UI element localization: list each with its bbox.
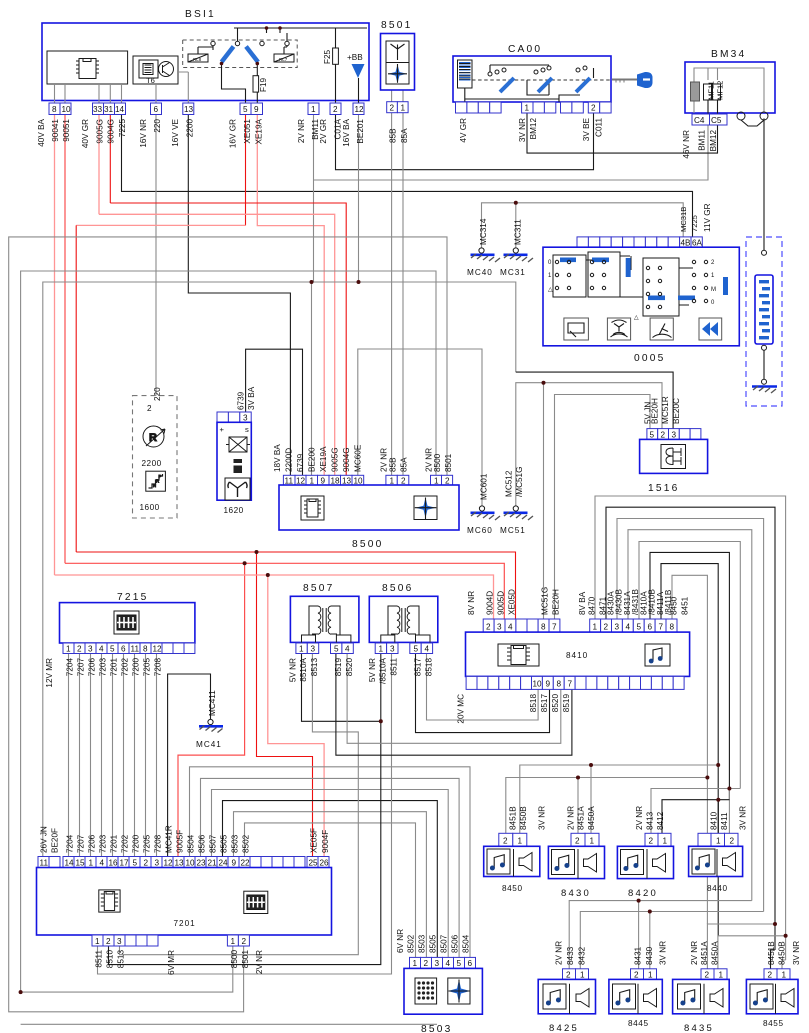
svg-text:RL7: RL7 [279, 57, 288, 62]
star icon [448, 978, 470, 1004]
svg-text:220: 220 [153, 387, 162, 401]
svg-text:7202: 7202 [121, 658, 130, 677]
svg-text:5: 5 [334, 645, 339, 654]
svg-text:40V BA: 40V BA [37, 118, 46, 146]
svg-text:8504: 8504 [187, 834, 196, 853]
wire BM11 from BSI1 pin 1 [313, 115, 315, 282]
svg-text:2: 2 [503, 837, 508, 846]
svg-text:2V NR: 2V NR [567, 806, 576, 830]
wire 9004D horizontal [55, 575, 494, 619]
wire BE20 main horizontal [43, 282, 516, 857]
svg-text:12: 12 [355, 105, 365, 114]
amplifier 8410 [457, 587, 690, 724]
svg-text:9004G: 9004G [342, 447, 351, 472]
lamp icon [226, 437, 250, 452]
svg-text:2200D: 2200D [285, 448, 294, 472]
svg-text:MC40: MC40 [467, 268, 493, 277]
svg-text:2V NR: 2V NR [690, 941, 699, 965]
wire 8520 8507 pin 4 to 8410 pin 8 [347, 654, 561, 744]
wire 8413 8420 pin 2 line [651, 789, 740, 834]
CA00 pin row [456, 102, 467, 113]
svg-text:7206: 7206 [88, 834, 97, 853]
svg-text:26: 26 [320, 859, 330, 868]
svg-text:8511: 8511 [95, 950, 104, 968]
svg-text:1: 1 [716, 837, 721, 846]
svg-text:MC51G: MC51G [541, 587, 550, 615]
wire 9005G horizontal into 8500 pin 18 [99, 214, 335, 475]
svg-text:5: 5 [414, 645, 419, 654]
wire 8505 7201 to 8503 pin 3 [223, 801, 438, 958]
svg-text:9005D: 9005D [497, 591, 506, 615]
wire 8451A branch 8430 pin 2 [577, 778, 579, 834]
svg-text:12V MR: 12V MR [45, 658, 54, 688]
speaker 8425 [538, 941, 595, 1033]
svg-text:1: 1 [231, 937, 236, 946]
svg-text:23: 23 [197, 859, 207, 868]
svg-text:8451A: 8451A [700, 941, 709, 965]
wire C01A BSI1 pin 2 to CA00 pin 2 [336, 113, 594, 170]
svg-text:3V BE: 3V BE [582, 117, 591, 141]
BSI1 inner module box [47, 51, 128, 84]
svg-text:XE19A: XE19A [319, 446, 328, 472]
svg-text:2200: 2200 [186, 119, 195, 138]
remote control 7215 [45, 592, 195, 688]
svg-text:8411: 8411 [720, 812, 729, 830]
svg-text:RL8: RL8 [193, 57, 202, 62]
svg-text:16V NR: 16V NR [139, 119, 148, 148]
horn icon [225, 478, 250, 500]
svg-text:33: 33 [93, 105, 103, 114]
steering column switch 0005 [543, 203, 739, 364]
bridge connector [737, 112, 745, 120]
svg-text:6: 6 [468, 959, 473, 968]
svg-text:2: 2 [242, 937, 247, 946]
svg-text:7203: 7203 [99, 834, 108, 853]
svg-text:9004F: 9004F [321, 830, 330, 853]
svg-text:8507: 8507 [303, 583, 334, 594]
svg-text:8455: 8455 [763, 1019, 784, 1028]
svg-text:7203: 7203 [99, 658, 108, 677]
svg-text:△: △ [548, 287, 553, 293]
svg-text:5: 5 [110, 645, 115, 654]
wire 8500net left loop [21, 271, 436, 992]
bottom pins [92, 935, 249, 946]
battery icon [234, 459, 243, 473]
svg-text:24: 24 [219, 859, 229, 868]
svg-text:2: 2 [445, 477, 450, 486]
svg-text:8433: 8433 [566, 946, 575, 965]
svg-text:7201: 7201 [174, 919, 196, 928]
svg-text:2: 2 [106, 937, 111, 946]
svg-text:9005G: 9005G [96, 119, 105, 144]
wire BE20C to 1516 pin 3 [516, 372, 673, 429]
svg-text:MC60E: MC60E [354, 444, 363, 472]
music note icon [645, 644, 670, 666]
ignition switch CA00 [453, 44, 653, 143]
svg-text:1: 1 [663, 837, 668, 846]
wire 9004G from BSI1 pin 31 [109, 115, 111, 203]
svg-text:8511: 8511 [390, 658, 399, 676]
svg-text:10: 10 [186, 859, 196, 868]
wire 8412 8420 pin 1 line [662, 800, 729, 834]
wire 8502 7201 to 8503 pin 1 [245, 823, 416, 958]
front speaker unit 8506 [368, 583, 438, 684]
svg-text:2V NR: 2V NR [380, 448, 389, 472]
svg-text:3: 3 [243, 414, 248, 423]
IC chip icon [301, 496, 324, 520]
0005 icon washer [607, 318, 630, 340]
svg-text:XE05D: XE05D [508, 589, 517, 615]
wire XE051 from BSI1 pin 5 [245, 115, 247, 225]
svg-text:BSI1: BSI1 [185, 9, 216, 20]
svg-text:90041: 90041 [51, 119, 60, 142]
svg-text:8450: 8450 [670, 596, 679, 615]
wire 8451B speaker line [506, 778, 708, 834]
svg-text:6: 6 [121, 645, 126, 654]
wire 8432 8425 pin 1 line [580, 912, 763, 969]
svg-text:5: 5 [457, 959, 462, 968]
wire 8431 branch 8445 pin 2 [638, 901, 640, 969]
svg-text:6A: 6A [692, 239, 703, 248]
svg-text:2: 2 [604, 623, 609, 632]
svg-text:16V BA: 16V BA [342, 118, 351, 146]
0005 icon wiper [650, 318, 673, 340]
fuse MF11 [691, 82, 700, 101]
svg-text:15: 15 [76, 859, 86, 868]
BSI1 internal top wires [198, 28, 367, 54]
svg-text:4: 4 [425, 645, 430, 654]
svg-text:8420: 8420 [628, 888, 658, 899]
svg-text:MC512: MC512 [505, 470, 514, 497]
svg-text:2: 2 [333, 105, 338, 114]
wire 8411 branch 8440 pin 2 [728, 789, 730, 834]
svg-text:8507: 8507 [209, 834, 218, 853]
wire 8501net left loop [9, 237, 447, 1012]
ground MC41 [196, 690, 223, 749]
wire MC51R 1516 to ground [516, 383, 662, 506]
dashed option box 2200 1600 [133, 387, 178, 518]
svg-text:BE200: BE200 [308, 447, 317, 472]
svg-text:BE20H: BE20H [552, 589, 561, 615]
wire 8511 8506 pin 3 to 7201 [98, 654, 392, 975]
star icon [388, 64, 407, 83]
svg-text:3V NR: 3V NR [518, 118, 527, 142]
svg-text:10: 10 [354, 477, 364, 486]
svg-text:8520: 8520 [345, 658, 354, 677]
wire BE20H 1516 to 8410 pin 7 [555, 395, 651, 620]
junction unit BM34 [682, 49, 775, 159]
svg-text:1600: 1600 [140, 503, 160, 512]
connector icon [114, 611, 139, 634]
svg-text:8513: 8513 [117, 950, 126, 969]
wire BM34 bridge to ladder [763, 118, 765, 250]
svg-text:5: 5 [650, 431, 655, 440]
key icon [612, 79, 637, 81]
svg-text:6: 6 [648, 623, 653, 632]
svg-text:2: 2 [575, 837, 580, 846]
svg-text:85B: 85B [389, 128, 398, 143]
svg-text:7201: 7201 [110, 834, 119, 853]
svg-text:8510: 8510 [106, 950, 115, 969]
svg-text:5V NR: 5V NR [289, 658, 298, 682]
svg-text:4: 4 [100, 859, 105, 868]
svg-text:8V NR: 8V NR [467, 591, 476, 615]
svg-text:0005: 0005 [634, 353, 665, 364]
svg-text:14: 14 [115, 105, 125, 114]
wire XE05F branch [257, 552, 313, 857]
svg-text:MF12: MF12 [716, 81, 725, 100]
svg-text:MC601: MC601 [480, 473, 489, 500]
svg-text:4: 4 [345, 645, 350, 654]
svg-text:2: 2 [730, 837, 735, 846]
switch output wires and fuse F19 [222, 64, 258, 104]
svg-text:12: 12 [296, 477, 306, 486]
svg-text:8431: 8431 [634, 946, 643, 965]
svg-text:8518: 8518 [529, 694, 538, 713]
svg-text:11: 11 [285, 477, 294, 486]
svg-text:MC31B: MC31B [679, 207, 688, 232]
svg-text:8451B: 8451B [767, 941, 776, 965]
svg-text:1: 1 [525, 104, 530, 113]
svg-text:8: 8 [52, 105, 57, 114]
wire 90051 from BSI1 pin 10 [64, 115, 66, 563]
svg-text:4: 4 [446, 959, 451, 968]
svg-text:8510A: 8510A [299, 657, 308, 681]
svg-text:7202: 7202 [121, 834, 130, 853]
svg-text:3: 3 [390, 645, 395, 654]
svg-text:8440: 8440 [707, 884, 728, 893]
svg-text:8503: 8503 [421, 1024, 452, 1033]
svg-text:1: 1 [593, 623, 598, 632]
wire 8513 8507 pin 3 to 7201 [120, 654, 359, 955]
ground MC60 [467, 473, 500, 535]
svg-text:31: 31 [104, 105, 114, 114]
svg-text:8V BA: 8V BA [578, 591, 587, 615]
svg-text:7206: 7206 [88, 658, 97, 677]
svg-text:13: 13 [342, 477, 352, 486]
svg-text:8517: 8517 [414, 658, 423, 677]
svg-text:+BB: +BB [347, 53, 363, 62]
svg-text:9: 9 [546, 680, 551, 689]
svg-text:s: s [245, 425, 249, 434]
svg-text:C5: C5 [711, 116, 722, 125]
svg-text:MC314: MC314 [479, 218, 488, 245]
relay dashed box [183, 40, 298, 68]
svg-text:8445: 8445 [628, 1019, 649, 1028]
svg-text:7205: 7205 [143, 834, 152, 853]
svg-text:12: 12 [164, 859, 174, 868]
svg-text:8519: 8519 [562, 694, 571, 713]
svg-text:9005F: 9005F [176, 830, 185, 853]
svg-text:8506: 8506 [382, 583, 413, 594]
svg-text:2V GR: 2V GR [319, 119, 328, 144]
svg-text:16V VE: 16V VE [171, 118, 180, 146]
svg-text:2: 2 [661, 431, 666, 440]
speaker 8445 [609, 941, 668, 1028]
svg-text:8450A: 8450A [587, 806, 596, 830]
contacts [465, 65, 594, 102]
wire 6739 1620 to 8500 pin 12 [246, 349, 303, 475]
IC chip icon [498, 644, 539, 666]
svg-text:2: 2 [424, 959, 429, 968]
svg-text:8450B: 8450B [519, 806, 528, 830]
svg-text:10: 10 [62, 105, 72, 114]
0005 icon rewind [699, 318, 722, 340]
svg-text:XE05F: XE05F [310, 828, 319, 853]
svg-text:40V GR: 40V GR [81, 119, 90, 148]
svg-text:7225: 7225 [118, 119, 127, 138]
relay switch contacts [222, 47, 234, 63]
svg-text:2V NR: 2V NR [555, 941, 564, 965]
fuse F25 [333, 48, 339, 64]
svg-text:8501: 8501 [381, 20, 412, 31]
wire MC51G branch to 8410 pin 8 [543, 383, 545, 619]
svg-text:△: △ [634, 315, 639, 321]
svg-text:21: 21 [208, 859, 218, 868]
svg-text:R: R [156, 479, 159, 484]
svg-text:7201: 7201 [110, 658, 119, 677]
IC chip icon [76, 59, 99, 79]
wire 8450A 8435 pin 1 line [718, 936, 786, 969]
right bundle riser B1 [595, 496, 786, 960]
wire 8510 8506 pin 1 to 7201 [109, 654, 381, 965]
transistor module T6 [133, 56, 178, 84]
0005 internal contacts [553, 252, 693, 316]
svg-text:18V BA: 18V BA [273, 444, 282, 472]
svg-text:1: 1 [782, 971, 787, 980]
svg-text:5: 5 [133, 859, 138, 868]
svg-text:BM12: BM12 [529, 118, 538, 140]
svg-text:8506: 8506 [198, 834, 207, 853]
svg-text:7: 7 [568, 680, 573, 689]
svg-text:3V NR: 3V NR [659, 941, 668, 965]
svg-text:7207: 7207 [77, 658, 86, 677]
svg-text:2200: 2200 [142, 459, 162, 468]
svg-text:7208: 7208 [154, 658, 163, 677]
svg-text:N: N [153, 483, 156, 488]
svg-text:220: 220 [153, 119, 162, 133]
BSI1 pin stubs [55, 84, 122, 103]
svg-text:8410: 8410 [710, 811, 719, 830]
svg-text:MC60: MC60 [467, 526, 493, 535]
svg-text:13: 13 [184, 105, 194, 114]
svg-text:8: 8 [143, 645, 148, 654]
svg-text:1620: 1620 [224, 506, 244, 515]
svg-text:4: 4 [508, 623, 513, 632]
ground MC40 [467, 218, 500, 277]
svg-text:MC41: MC41 [196, 740, 222, 749]
svg-text:2: 2 [390, 104, 395, 113]
svg-text:10: 10 [533, 680, 543, 689]
antenna icon [391, 44, 405, 60]
svg-text:5: 5 [243, 105, 248, 114]
svg-text:8450: 8450 [502, 884, 523, 893]
display unit 7201 [37, 825, 332, 975]
svg-text:46V NR: 46V NR [682, 130, 691, 159]
svg-text:XE19A: XE19A [255, 118, 264, 144]
svg-text:1516: 1516 [648, 483, 679, 494]
wire 9004G horizontal into 8500 pin 13 [110, 203, 346, 475]
svg-text:16: 16 [109, 859, 119, 868]
svg-text:5: 5 [637, 623, 642, 632]
svg-text:1: 1 [648, 971, 653, 980]
right bundle riser B8 [672, 575, 707, 924]
svg-text:+: + [220, 425, 225, 434]
svg-text:1: 1 [719, 971, 724, 980]
svg-text:7: 7 [659, 623, 664, 632]
svg-text:85A: 85A [400, 128, 409, 143]
svg-text:7: 7 [552, 623, 557, 632]
svg-text:BE201: BE201 [356, 119, 365, 144]
right bundle riser B5 [639, 542, 740, 789]
svg-text:2: 2 [591, 104, 596, 113]
wire 220 from BSI1 pin 6 [155, 115, 157, 396]
svg-text:5V NR: 5V NR [368, 658, 377, 682]
svg-text:8451A: 8451A [577, 806, 586, 830]
svg-text:8507: 8507 [440, 934, 449, 953]
svg-text:6739: 6739 [296, 453, 305, 472]
svg-text:6V NR: 6V NR [396, 929, 405, 953]
svg-text:8519: 8519 [334, 658, 343, 677]
svg-text:C4: C4 [694, 116, 705, 125]
svg-text:8504: 8504 [462, 934, 471, 953]
speaker 8455 [746, 941, 801, 1028]
wire 8506 7201 to 8503 pin 5 [201, 778, 460, 957]
svg-text:1: 1 [66, 645, 71, 654]
suppressor ladder unit [746, 237, 782, 406]
svg-text:BE20H: BE20H [651, 398, 660, 424]
svg-text:11: 11 [40, 859, 49, 868]
wire 8503 7201 to 8503 pin 2 [234, 812, 427, 958]
svg-text:8505: 8505 [220, 834, 229, 853]
connector icon [244, 891, 268, 913]
svg-text:8425: 8425 [549, 1023, 579, 1033]
svg-text:8430: 8430 [561, 888, 591, 899]
svg-text:2: 2 [649, 837, 654, 846]
wire MC311 ground branch [515, 203, 517, 248]
svg-text:2: 2 [634, 971, 639, 980]
svg-text:8505: 8505 [429, 934, 438, 953]
svg-text:22: 22 [241, 859, 251, 868]
svg-text:8501: 8501 [241, 950, 250, 969]
radio unit 8500 [273, 444, 459, 550]
svg-text:7200: 7200 [132, 834, 141, 853]
svg-text:8520: 8520 [551, 694, 560, 713]
svg-text:/8510A: /8510A [379, 657, 388, 683]
svg-text:26V JN: 26V JN [40, 826, 49, 853]
svg-text:MC311: MC311 [514, 219, 523, 245]
BM34 pin row C4 C5 [692, 114, 710, 125]
svg-text:BM12: BM12 [709, 130, 718, 152]
wire MC60E 8500 pin 10 to ground [358, 349, 482, 506]
svg-text:C011: C011 [595, 118, 604, 137]
wire MC31B ground run [482, 203, 684, 248]
svg-text:8503: 8503 [418, 934, 427, 953]
svg-text:4B: 4B [681, 239, 692, 248]
wire XE051 descender [75, 225, 77, 552]
svg-text:F19: F19 [259, 77, 268, 92]
svg-text:3: 3 [497, 623, 502, 632]
svg-text:8500: 8500 [433, 453, 442, 472]
svg-text:4: 4 [99, 645, 104, 654]
wire 8518 8506 pin 4 to 8410 pin 10 [427, 654, 539, 721]
BSI1 wire labels [37, 118, 365, 148]
wire bottom rail [21, 1023, 437, 1025]
svg-text:BE20F: BE20F [51, 828, 60, 853]
svg-text:MC51R: MC51R [661, 396, 670, 424]
bottom pin row [466, 676, 684, 689]
wire MC41R 7201 pin 12 to MC41 [168, 674, 211, 857]
